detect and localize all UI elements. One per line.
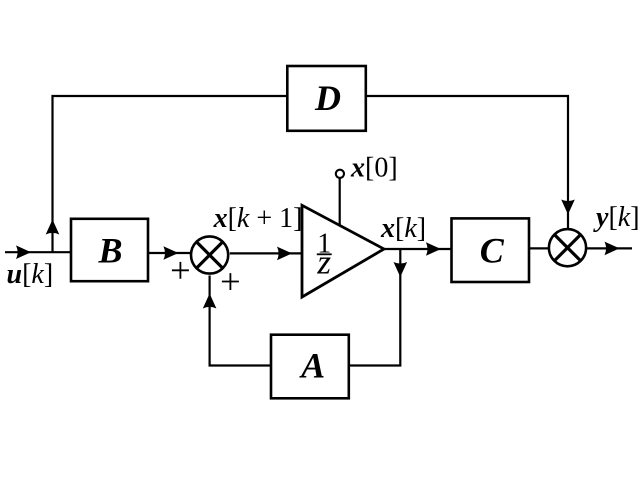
svg-text:A: A: [299, 346, 325, 386]
arrowhead into C: [426, 242, 441, 256]
wire A to left corner up into summing junction: [210, 276, 270, 366]
arrowhead up into top rail: [46, 220, 60, 235]
wire D to down corner: [367, 96, 568, 229]
svg-text:x[k + 1]: x[k + 1]: [213, 203, 303, 234]
svg-text:B: B: [97, 231, 122, 271]
svg-text:u[k]: u[k]: [7, 259, 54, 290]
wire 1/z output x[k] to C: [384, 248, 451, 250]
svg-text:D: D: [314, 78, 341, 118]
wire summing junction to 1/z triangle: [230, 252, 301, 254]
block B: [71, 219, 148, 281]
delay element 1/z triangle: [302, 205, 384, 297]
arrowhead into triangle: [277, 247, 292, 261]
plus sign left of summing junction: [172, 262, 189, 279]
block A: [271, 335, 349, 399]
svg-text:C: C: [480, 231, 505, 271]
block C: [452, 218, 530, 282]
arrowhead output y[k]: [605, 242, 620, 256]
wire product junction to output y[k]: [587, 247, 632, 249]
svg-text:y[k]: y[k]: [593, 202, 640, 233]
wire C to product junction: [530, 247, 549, 249]
summing junction (circle with X): [191, 236, 228, 273]
plus sign below summing junction: [222, 273, 239, 290]
arrowhead feedback up into summing junction: [203, 294, 217, 309]
svg-text:z: z: [316, 243, 331, 282]
arrowhead down toward A: [394, 262, 408, 277]
block D: [287, 66, 366, 131]
svg-text:x[k]: x[k]: [380, 213, 426, 244]
wire x[k] node down to A: [350, 249, 400, 366]
arrowhead B output: [163, 246, 178, 260]
svg-text:x[0]: x[0]: [350, 152, 398, 183]
wire input u[k] to B: [5, 251, 70, 253]
arrowhead input: [16, 245, 31, 259]
product junction (circle with X): [549, 229, 586, 266]
arrowhead down into product junction: [561, 200, 575, 215]
wire x[0] stem into triangle top edge: [339, 179, 341, 227]
wire B to summing junction: [149, 252, 190, 254]
wire branch up from input node to top rail and to D: [53, 96, 287, 252]
initial condition terminal x[0] circle: [336, 170, 344, 178]
